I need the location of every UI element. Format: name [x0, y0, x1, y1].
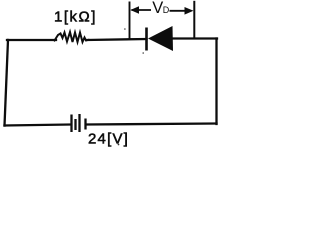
svg-text:24[V]: 24[V]: [88, 131, 129, 148]
svg-text:1[kΩ]: 1[kΩ]: [54, 9, 97, 26]
svg-text:D: D: [163, 5, 170, 15]
svg-text:V: V: [152, 0, 163, 17]
